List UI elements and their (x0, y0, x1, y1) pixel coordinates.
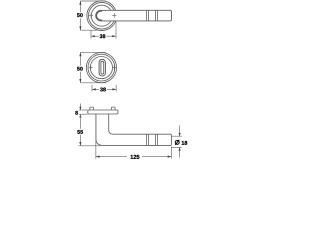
fixing screws (behind rose plate) (90, 107, 115, 111)
rose ring 3 (91, 5, 112, 26)
arrowhead 38 right (view 2) (112, 88, 116, 90)
value label 18 (182, 141, 188, 145)
lever grooves (top view) (146, 10, 157, 21)
arrowhead 8 bottom / 55 top (79, 114, 81, 117)
neck inner arc (97, 11, 103, 20)
arrowhead 38 left (view 2) (92, 88, 96, 90)
keyhole inner (101, 61, 104, 74)
rose plate side view (88, 110, 118, 114)
value label 55 (77, 130, 83, 134)
value label 38 (view 2) (100, 88, 106, 92)
escutcheon centre marks (89, 65, 117, 69)
dimension 50 (middle view) (80, 52, 105, 82)
escutcheon outer circle (86, 53, 116, 83)
handle neck and grip (side view) (96, 114, 171, 145)
value label 8 (75, 111, 78, 115)
arrowhead diameter-18 bottom (179, 147, 181, 150)
rose ring 2 (89, 2, 116, 29)
dimension 38 (middle view) (92, 85, 116, 92)
dimension 8 (rose thickness) (79, 104, 88, 115)
arrowhead 38 right (view 1) (112, 35, 116, 37)
dimension Ø18 (grip diameter) (172, 126, 182, 158)
dimension 50 (top view) (80, 1, 105, 30)
arrowhead 38 left (view 1) (91, 35, 95, 37)
value label 125 (131, 155, 140, 159)
value label 38 (view 1) (100, 34, 106, 38)
arrowhead 50 top (view 1) (79, 1, 81, 5)
value label 50 (view 1) (77, 13, 83, 17)
escutcheon ring 2 (88, 54, 115, 81)
arrowhead diameter-18 top (179, 133, 181, 136)
arrowhead 50 bottom (view 2) (79, 79, 81, 83)
keyhole outer (99, 59, 105, 76)
arrowhead 50 bottom (view 1) (79, 26, 81, 30)
arrowhead 8 top (79, 107, 81, 110)
diameter symbol (175, 140, 179, 144)
arrowhead 125 left (96, 156, 100, 158)
arrowhead 125 right (168, 156, 172, 158)
arrowhead 55 bottom (79, 142, 81, 146)
value label 50 (view 2) (77, 67, 83, 71)
dimension 38 (top view) (91, 21, 116, 38)
escutcheon ring 3 (90, 57, 112, 79)
rose outer circle (87, 1, 117, 31)
grip grooves (side view) (146, 134, 157, 145)
lever (stadium shape, white fill hides circles behind) (96, 10, 172, 21)
screw-hole centre marks (89, 13, 117, 17)
arrowhead 50 top (view 2) (79, 52, 81, 56)
dimension 125 (length) (96, 115, 172, 159)
dimension 55 (height) (78, 114, 100, 146)
